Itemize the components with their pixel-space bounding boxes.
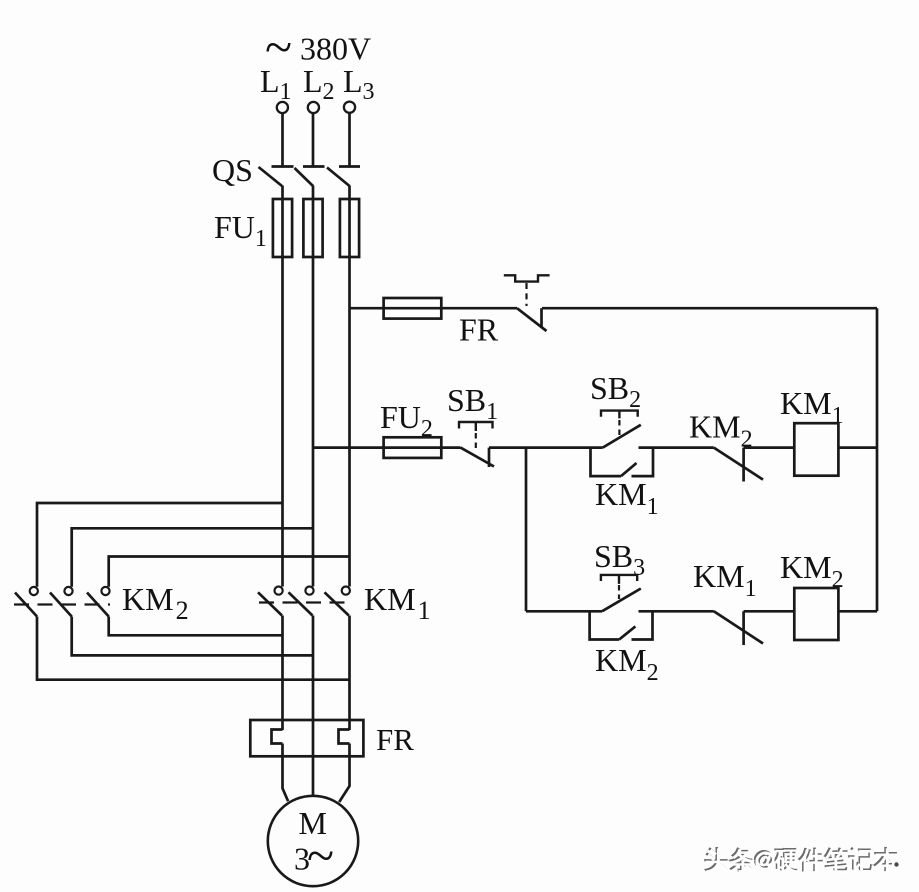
motor M circle (268, 796, 358, 886)
wire KM1 interlock to coil KM2 (744, 610, 795, 613)
fuse FU1 pole1 body (273, 199, 292, 257)
pushbutton SB1 cap bracket (459, 422, 493, 429)
svg-text:KM2: KM2 (780, 549, 844, 593)
svg-text:KM1: KM1 (595, 476, 659, 520)
svg-text:SB1: SB1 (447, 382, 498, 425)
wire reversing loop B bottom (KM2 pole2 to phase B lower) (72, 617, 313, 656)
wire reversing loop A top (phase A to KM2 pole1) (37, 503, 283, 587)
wire reversing loop B top (phase B to KM2 pole2) (72, 528, 313, 587)
label ~380V (265, 19, 371, 75)
contact KM2 interlock blade (NC) (714, 448, 763, 480)
svg-text:~: ~ (307, 827, 334, 883)
contactor KM1 main pole1 circle (275, 587, 283, 595)
pushbutton SB3 linkage dashes (618, 585, 620, 599)
pushbutton SB1 right tick (488, 448, 491, 467)
contact KM1 interlock right tick (742, 611, 745, 645)
svg-text:KM1: KM1 (364, 581, 431, 625)
switch QS pole 2 fixed tick (303, 165, 325, 168)
relay FR contact right tick (540, 308, 543, 327)
contactor KM1 main linkage dashes (259, 601, 351, 603)
motor 3-phase mark (294, 827, 334, 883)
contact KM1 interlock blade (NC) (714, 611, 763, 643)
svg-text:L3: L3 (343, 63, 375, 105)
wire phase A below KM1 to FR heater (281, 616, 284, 731)
fuse on control line 1 body (384, 298, 442, 319)
svg-text:L2: L2 (303, 63, 335, 105)
svg-text:KM2: KM2 (122, 581, 189, 625)
coil KM1 body (794, 423, 838, 476)
terminal circle L3 (344, 102, 355, 113)
pushbutton SB1 blade (NC) (461, 448, 495, 467)
contact KM2 auxiliary (self-hold) left drop (590, 611, 620, 639)
wire right bus vertical (876, 308, 879, 611)
switch QS pole 1 fixed tick (272, 165, 294, 168)
wire L2 drop to QS (312, 113, 315, 166)
wire KM2 interlock to coil KM1 (744, 446, 795, 449)
contact KM2 auxiliary blade (NO) (619, 626, 635, 639)
svg-text:KM1: KM1 (693, 558, 757, 602)
contact KM1 auxiliary blade (NO) (621, 463, 637, 476)
svg-text:KM2: KM2 (689, 409, 753, 453)
contactor KM1 main pole2 circle (305, 587, 313, 595)
contact KM1 auxiliary right side (632, 448, 654, 477)
contactor KM2 main pole2 blade (50, 593, 72, 617)
fuse FU1 pole3 body (340, 199, 359, 257)
pushbutton SB2 linkage dashes (618, 420, 620, 435)
contactor KM2 main pole1 blade (15, 593, 37, 617)
contactor KM1 main pole3 blade (325, 592, 349, 615)
svg-text:SB2: SB2 (590, 370, 641, 413)
switch QS pole 3 blade (327, 168, 350, 187)
fuse FU1 pole2 body (303, 199, 322, 257)
wire reversing loop C top (phase C to KM2 pole3) (109, 557, 350, 587)
contact KM2 auxiliary right side (632, 611, 653, 639)
wire QS to FU1 pole2 (312, 186, 315, 200)
wire FR to motor left lead (283, 744, 289, 802)
relay FR heater element pole3 detour (339, 730, 350, 744)
svg-text:QS: QS (212, 152, 253, 188)
relay FR contact actuator (504, 275, 550, 281)
wire rung 1 from phase B tap to SB1 (313, 446, 461, 449)
wire L3 drop to QS (348, 113, 351, 166)
contactor KM2 main pole2 circle (64, 587, 72, 595)
wire rung 2 from junction to SB3 (526, 610, 602, 613)
switch QS pole 3 fixed tick (339, 165, 360, 168)
wire SB1 to SB2 with junction node (489, 446, 603, 449)
contactor KM2 main pole1 circle (30, 587, 38, 595)
pushbutton SB2 cap bracket (601, 411, 638, 417)
switch QS pole 1 blade (259, 167, 283, 186)
svg-text:FR: FR (459, 312, 499, 348)
watermark 头条@硬件笔记本 (704, 847, 899, 873)
pushbutton SB2 stem (618, 411, 620, 419)
svg-text:FR: FR (376, 722, 414, 757)
wire phase C below KM1 to FR heater (348, 616, 351, 731)
wire through FU1 pole2, phase B down to KM1 contact (312, 199, 315, 587)
wire phase B below KM1 to motor (312, 616, 315, 796)
wire L1 drop to QS (281, 113, 284, 166)
wire reversing loop C bottom (KM2 pole3 to phase A lower) (109, 617, 283, 636)
contact KM2 interlock right tick (742, 448, 745, 482)
wire QS to FU1 pole1 (281, 186, 284, 200)
terminal circle L1 (277, 102, 288, 113)
contactor KM2 main linkage dashes (14, 603, 110, 605)
contactor KM1 main pole2 blade (289, 592, 313, 615)
wire reversing loop A bottom (KM2 pole1 to phase C lower) (37, 617, 350, 680)
wire control line 1 right segment (542, 307, 877, 310)
pushbutton SB1 stem (475, 422, 477, 431)
svg-text:380V: 380V (300, 31, 371, 67)
svg-text:FU2: FU2 (380, 399, 433, 442)
wire QS to FU1 pole3 (348, 186, 351, 200)
wire SB3 to KM1 interlock (639, 610, 714, 613)
wire control line 1 left segment with tap at phase C (350, 307, 518, 310)
pushbutton SB1 linkage dashes (475, 433, 477, 452)
pushbutton SB3 cap bracket (601, 575, 637, 581)
relay FR contact blade (517, 308, 547, 331)
pushbutton SB3 stem (618, 575, 620, 584)
wire junction drop to rung 2 (525, 448, 528, 612)
coil KM2 body (794, 588, 838, 640)
relay FR heater element pole1 detour (272, 730, 283, 744)
svg-text:FU1: FU1 (214, 209, 267, 252)
relay FR heater box (250, 720, 363, 756)
contactor KM2 main pole3 blade (87, 593, 109, 617)
pushbutton SB3 blade (NO) (602, 589, 641, 612)
pushbutton SB2 blade (NO) (603, 425, 641, 448)
wire FR to motor right lead (339, 744, 349, 803)
contactor KM1 main pole3 circle (342, 587, 350, 595)
contact KM1 auxiliary (self-hold) left drop (591, 448, 622, 477)
wire through FU1 pole3, phase C down to KM1 contact (348, 199, 351, 587)
switch QS pole 2 blade (295, 168, 314, 186)
fuse FU2 body (384, 437, 442, 458)
wire coil KM2 to right bus (838, 610, 877, 613)
wire SB2 to KM2 interlock (639, 446, 714, 449)
svg-text:KM2: KM2 (595, 642, 659, 686)
wire coil KM1 to right bus (838, 446, 877, 449)
relay FR contact linkage dashes (525, 283, 527, 306)
contactor KM1 main pole1 blade (258, 592, 282, 615)
terminal circle L2 (308, 102, 319, 113)
wire through FU1 pole1, phase A down to KM1 contact (281, 199, 284, 587)
contactor KM2 main pole3 circle (101, 587, 109, 595)
